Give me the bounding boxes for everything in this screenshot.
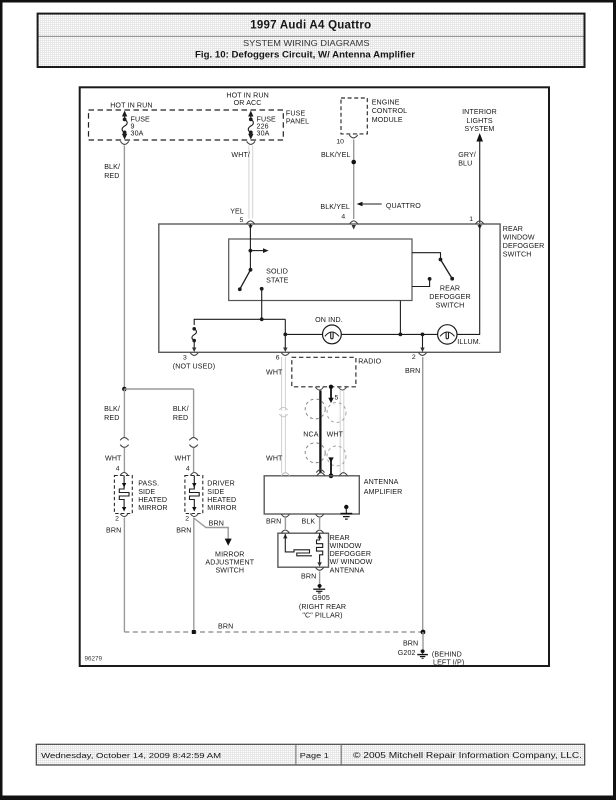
rear window defogger switch box S1 [159, 224, 500, 352]
svg-text:30A: 30A [257, 130, 270, 138]
svg-text:SYSTEM: SYSTEM [465, 125, 495, 133]
svg-text:BRN: BRN [301, 572, 316, 580]
junction driver wire to bus [192, 630, 196, 634]
label BRN (below pin2) [405, 367, 420, 375]
label FUSE 9 30A [131, 116, 151, 138]
svg-text:BRN: BRN [405, 367, 420, 375]
label BLK/RED (upper) [104, 163, 120, 180]
svg-text:RADIO: RADIO [358, 358, 381, 366]
svg-text:6: 6 [276, 355, 280, 362]
svg-text:HOT IN RUN: HOT IN RUN [110, 101, 152, 109]
ground G202 [398, 649, 428, 658]
svg-text:WINDOW: WINDOW [330, 542, 362, 550]
label WHT (pass) [105, 455, 122, 463]
interior lights system arrow [462, 108, 497, 223]
svg-text:FUSE: FUSE [286, 110, 306, 118]
amp BLK exit connector [302, 514, 324, 525]
svg-text:ILLUM.: ILLUM. [457, 338, 481, 346]
driver mirror heater element [190, 486, 200, 512]
pin 3 exit connector [173, 352, 215, 370]
fuse F9 30A [122, 111, 127, 140]
svg-text:BRN: BRN [176, 527, 191, 535]
solid state switch blade (left) [238, 251, 253, 292]
svg-text:5: 5 [335, 394, 339, 401]
svg-text:5: 5 [240, 217, 244, 224]
svg-text:(BEHIND: (BEHIND [432, 650, 462, 658]
svg-text:10: 10 [336, 139, 344, 146]
label BRN driver [176, 527, 191, 535]
svg-text:4: 4 [341, 214, 345, 221]
svg-text:WHT: WHT [266, 455, 283, 463]
svg-text:SIDE: SIDE [138, 488, 155, 496]
defogger BRN exit connector [301, 567, 324, 580]
inline connector pass wire [120, 438, 128, 472]
pin 5 label [240, 217, 244, 224]
label WHT/ [231, 151, 250, 159]
shield ellipse lower right [327, 446, 346, 466]
label BLK/YEL (upper) [321, 151, 351, 159]
fuse F226 30A [248, 111, 253, 140]
footer panel [36, 744, 584, 765]
svg-text:MIRROR: MIRROR [215, 551, 245, 559]
svg-text:LEFT I/P): LEFT I/P) [433, 659, 464, 667]
label ENGINE CONTROL MODULE [372, 98, 408, 124]
label HOT IN RUN (left) [110, 101, 152, 109]
svg-text:BRN: BRN [266, 517, 281, 525]
svg-text:REAR: REAR [330, 534, 350, 542]
main diagram border [80, 87, 549, 666]
svg-text:SWITCH: SWITCH [215, 567, 244, 575]
label PASS. SIDE HEATED MIRROR [138, 480, 168, 512]
svg-text:96279: 96279 [85, 656, 103, 663]
svg-text:PANEL: PANEL [286, 118, 309, 126]
svg-text:ENGINE: ENGINE [372, 98, 400, 106]
svg-text:MIRROR: MIRROR [207, 504, 237, 512]
pin 5 entry connector [246, 221, 254, 230]
pin 2 exit connector [412, 352, 427, 361]
node pin2 branch [420, 333, 424, 353]
pin 4 label pass [116, 466, 120, 473]
svg-text:1: 1 [469, 216, 473, 223]
wire BLK/RED from fuse 9 [123, 146, 125, 390]
pass mirror entry connector [120, 473, 128, 488]
label BLK/YEL (lower) [320, 203, 350, 211]
label BRN (G202) [403, 639, 418, 647]
ECM pin 10 connector [336, 135, 357, 146]
driver mirror entry connector [190, 473, 198, 488]
svg-text:Wednesday, October 14, 2009 8:: Wednesday, October 14, 2009 8:42:59 AM [41, 751, 221, 760]
radio pin5 node and stub [328, 385, 338, 404]
BRN ground bus dashed wire [124, 623, 423, 632]
svg-text:BRN: BRN [403, 639, 418, 647]
wire BLK/YEL from ECM [353, 140, 355, 220]
label BLK/RED (pass side) [104, 405, 120, 422]
defogger grid element [285, 533, 322, 567]
label WHT (driver) [175, 455, 192, 463]
pin 1 entry connector [476, 221, 484, 230]
label YEL [230, 207, 244, 215]
svg-text:ON IND.: ON IND. [315, 316, 343, 324]
svg-text:DEFOGGER: DEFOGGER [503, 242, 545, 250]
splice node on BLK/YEL [351, 160, 356, 165]
pin 2 label driver [185, 515, 189, 522]
pin 6 exit connector [276, 352, 290, 361]
svg-text:BRN: BRN [218, 623, 233, 631]
svg-text:HEATED: HEATED [138, 496, 167, 504]
wire BRN amp to defogger [284, 518, 286, 529]
wire BRN from pin2 [422, 357, 424, 632]
svg-text:WHT: WHT [266, 368, 283, 376]
svg-text:MODULE: MODULE [372, 116, 403, 124]
radio dashed box [292, 357, 382, 387]
pass mirror heater element [119, 486, 129, 512]
shield ellipse upper right [327, 403, 346, 423]
svg-text:BLK/: BLK/ [104, 405, 120, 413]
svg-text:Page 1: Page 1 [300, 751, 329, 760]
node solid state output to lamp bus [399, 333, 403, 337]
svg-text:QUATTRO: QUATTRO [386, 202, 421, 210]
svg-text:DRIVER: DRIVER [207, 480, 235, 488]
svg-text:WHT: WHT [175, 455, 192, 463]
svg-text:2: 2 [185, 515, 189, 522]
svg-text:BLK/YEL: BLK/YEL [321, 151, 351, 159]
pin 4 label [341, 214, 345, 221]
svg-text:SIDE: SIDE [207, 488, 224, 496]
svg-text:WINDOW: WINDOW [503, 233, 535, 241]
wire WHT from pin6 (white wire) [282, 357, 286, 473]
arrow branch right from pin5 node [250, 248, 268, 253]
svg-text:ADJUSTMENT: ADJUSTMENT [205, 559, 254, 567]
svg-text:DEFOGGER: DEFOGGER [429, 293, 471, 301]
solid state inner box [229, 239, 412, 301]
svg-text:1997 Audi A4 Quattro: 1997 Audi A4 Quattro [250, 20, 371, 32]
NCA coax center conductor [319, 391, 321, 473]
svg-text:INTERIOR: INTERIOR [462, 108, 497, 116]
lamp bus wire [285, 333, 480, 335]
diagram id 96279 [85, 656, 103, 663]
svg-text:CONTROL: CONTROL [372, 107, 408, 115]
label REAR DEFOGGER SWITCH (inner) [429, 285, 471, 310]
svg-text:4: 4 [116, 466, 120, 473]
svg-text:BRN: BRN [209, 520, 224, 528]
pin 6 internal wire [283, 319, 287, 352]
amp BRN exit connector [266, 514, 290, 525]
svg-text:BLK/YEL: BLK/YEL [320, 203, 350, 211]
svg-text:G202: G202 [398, 649, 416, 657]
wire BRN to G905 [319, 572, 321, 585]
wire WHT/YEL from fuse 226 (white wire) [249, 146, 253, 219]
wire pin5 into solid state [249, 224, 253, 253]
svg-text:NCA: NCA [303, 430, 318, 438]
svg-text:SYSTEM WIRING DIAGRAMS: SYSTEM WIRING DIAGRAMS [243, 39, 370, 48]
svg-text:YEL: YEL [230, 207, 244, 215]
connector under fuse 9 [120, 141, 128, 144]
svg-text:SWITCH: SWITCH [503, 250, 532, 258]
shield ellipse lower left [305, 443, 325, 463]
junction node to G202 [421, 630, 426, 650]
svg-text:(NOT USED): (NOT USED) [173, 362, 215, 370]
svg-text:DEFOGGER: DEFOGGER [330, 550, 372, 558]
svg-text:BLK: BLK [302, 517, 316, 525]
svg-text:AMPLIFIER: AMPLIFIER [364, 488, 403, 496]
svg-text:"C" PILLAR): "C" PILLAR) [302, 611, 342, 619]
QUATTRO callout [357, 202, 422, 210]
label BEHIND LEFT I/P [432, 650, 464, 666]
pass side heated mirror box [114, 476, 132, 514]
svg-text:Fig. 10: Defoggers Circuit, W/: Fig. 10: Defoggers Circuit, W/ Antenna A… [195, 49, 416, 59]
svg-text:BLK/: BLK/ [173, 405, 189, 413]
svg-text:REAR: REAR [503, 225, 523, 233]
svg-text:BRN: BRN [106, 527, 121, 535]
WHT antenna wire from radio (white wire) [340, 390, 344, 473]
label DRIVER SIDE HEATED MIRROR [207, 480, 237, 512]
label REAR WINDOW DEFOGGER SWITCH (right) [503, 225, 545, 258]
radio WHT connector [338, 387, 346, 390]
svg-text:4: 4 [186, 466, 190, 473]
svg-text:PASS.: PASS. [138, 480, 159, 488]
internal bus to pin3/pin6 [194, 317, 285, 325]
label GRY/BLU [458, 151, 476, 167]
ILLUM lamp [438, 325, 481, 346]
svg-text:MIRROR: MIRROR [138, 504, 168, 512]
svg-text:2: 2 [412, 354, 416, 361]
svg-text:© 2005 Mitchell Repair Informa: © 2005 Mitchell Repair Information Compa… [353, 751, 582, 760]
svg-text:BLK/: BLK/ [104, 163, 120, 171]
label FUSE PANEL [286, 110, 309, 126]
defogger right entry connector [316, 530, 324, 538]
label WHT (upper) [266, 368, 283, 376]
wire BLK amp to defogger [319, 518, 321, 529]
svg-text:RED: RED [104, 414, 119, 422]
pass mirror exit connector [120, 514, 128, 517]
amp coax entry connector [317, 473, 325, 476]
svg-text:WHT/: WHT/ [231, 151, 250, 159]
svg-text:REAR: REAR [440, 285, 460, 293]
svg-text:W/ WINDOW: W/ WINDOW [330, 558, 373, 566]
label WHT (antenna lead) [327, 430, 344, 438]
pin 1 label [469, 216, 473, 223]
engine control module U1 dashed box [341, 98, 367, 134]
svg-text:BLU: BLU [458, 159, 472, 167]
pin 2 label pass [115, 515, 119, 522]
label FUSE 226 30A [257, 116, 277, 138]
label HOT IN RUN OR ACC (right) [226, 92, 268, 108]
svg-text:G905: G905 [312, 594, 330, 602]
ground G905 [299, 584, 346, 619]
svg-text:2: 2 [115, 515, 119, 522]
pin 4 entry connector [350, 221, 358, 230]
svg-text:RED: RED [173, 414, 188, 422]
svg-text:ANTENNA: ANTENNA [364, 478, 399, 486]
svg-text:(RIGHT REAR: (RIGHT REAR [299, 603, 346, 611]
label REAR WINDOW DEFOGGER W/ WINDOW ANTENNA [330, 534, 373, 575]
solid state right output wire [399, 301, 401, 335]
WHT antenna lower stub with arrow [328, 457, 333, 478]
svg-text:GRY/: GRY/ [458, 151, 476, 159]
wire BRN pass mirror down [123, 518, 125, 633]
svg-text:LIGHTS: LIGHTS [466, 117, 492, 125]
label BLK/RED (driver side) [173, 405, 189, 422]
label WHT (lower) [266, 455, 283, 463]
radio coax connector [315, 387, 323, 390]
label NCA [303, 430, 318, 438]
svg-text:STATE: STATE [266, 276, 289, 284]
svg-text:WHT: WHT [327, 430, 344, 438]
amp internal ground [341, 505, 353, 519]
inline connector driver wire [189, 438, 197, 472]
driver side heated mirror box [185, 476, 203, 514]
shield ellipse upper left [305, 399, 325, 419]
amp antenna entry connector [339, 473, 347, 476]
svg-text:OR ACC: OR ACC [234, 99, 262, 107]
svg-text:RED: RED [104, 172, 119, 180]
svg-text:SOLID: SOLID [266, 267, 288, 275]
solid state left output node [260, 287, 264, 319]
not used contact squiggle [192, 327, 197, 352]
fuse panel dashed box [89, 110, 284, 140]
defogger left entry connector [281, 530, 289, 538]
svg-text:3: 3 [183, 355, 187, 362]
label BRN pass [106, 527, 121, 535]
pin1 internal wire [479, 224, 481, 334]
amp WHT entry connector [281, 473, 289, 476]
inline connector on WHT wire [279, 407, 287, 416]
rear window defogger w/ window antenna box [278, 533, 329, 567]
antenna amplifier box A1 [264, 476, 402, 514]
pin 4 label driver [186, 466, 190, 473]
driver mirror exit connector [190, 514, 198, 517]
wire BRN driver mirror down [193, 518, 195, 633]
svg-text:WHT: WHT [105, 455, 122, 463]
left mirror wire junction node [122, 387, 194, 437]
mirror adjustment switch branch [194, 519, 254, 575]
ON IND lamp [315, 316, 343, 344]
header panel [38, 14, 585, 67]
coax lower connector arc [316, 470, 324, 473]
svg-text:SWITCH: SWITCH [436, 301, 465, 309]
svg-text:HEATED: HEATED [207, 496, 236, 504]
svg-text:30A: 30A [131, 130, 144, 138]
svg-text:ANTENNA: ANTENNA [330, 566, 365, 574]
rear defogger switch contact [412, 253, 454, 287]
connector under fuse 226 [247, 141, 255, 144]
